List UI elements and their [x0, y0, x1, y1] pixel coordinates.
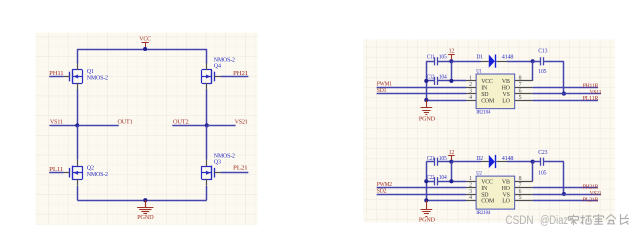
- pin 3 SD: [466, 189, 489, 199]
- svg-text:VB: VB: [502, 79, 510, 85]
- svg-text:PL11R: PL11R: [583, 95, 599, 102]
- junction C2/ground: [424, 179, 428, 183]
- pin 2 IN: [466, 82, 488, 92]
- svg-text:VS11: VS11: [50, 118, 63, 125]
- wire VS to VS21: [533, 194, 601, 196]
- svg-text:8: 8: [519, 176, 522, 182]
- wire Q2 source to bottom rail: [77, 186, 79, 200]
- svg-text:1: 1: [469, 76, 472, 82]
- wire node to OUT1: [77, 125, 118, 127]
- svg-text:2: 2: [469, 82, 472, 88]
- wire SD1 to SD pin: [377, 93, 466, 95]
- pin 2 IN: [466, 183, 488, 193]
- watermark CJK glyphs: [568, 214, 629, 225]
- pin 4 COM: [466, 195, 495, 205]
- wire Q3 gate to PL21: [221, 172, 249, 174]
- wire VS to VS11: [533, 93, 601, 95]
- left sheet background: [35, 33, 257, 225]
- svg-text:C12: C12: [427, 75, 435, 81]
- wire PH11 to Q1 gate: [49, 76, 63, 78]
- svg-text:Q4: Q4: [214, 63, 221, 69]
- svg-text:IN: IN: [481, 86, 488, 92]
- capacitor C11: [426, 55, 451, 66]
- transistor Q4: [202, 64, 221, 90]
- pin 5 LO: [502, 95, 532, 105]
- svg-text:104: 104: [439, 175, 447, 181]
- wire PWM2 to IN pin: [377, 187, 466, 189]
- right sheet background: [363, 39, 615, 222]
- svg-text:5: 5: [519, 95, 522, 101]
- svg-text:6: 6: [519, 88, 522, 94]
- wire LO to PL21R: [533, 200, 598, 202]
- wire VS11 to node: [49, 125, 77, 127]
- junction top rail / VCC: [143, 47, 147, 51]
- wire SD2 to SD pin: [377, 194, 466, 196]
- svg-text:8: 8: [519, 76, 522, 82]
- pin 8 VB: [502, 176, 533, 186]
- svg-text:1: 1: [469, 176, 472, 182]
- junction node VS21: [205, 123, 209, 127]
- wire HO to PH21R: [533, 187, 598, 189]
- junction node VS11: [75, 123, 79, 127]
- svg-text:CSDN: CSDN: [505, 213, 533, 227]
- wire ground rail vertical: [426, 162, 428, 201]
- transistor Q1: [64, 64, 83, 90]
- svg-text:105: 105: [439, 55, 447, 61]
- svg-text:D1: D1: [476, 55, 483, 61]
- wire ground rail vertical: [426, 61, 428, 100]
- wire diode to VB node: [507, 161, 533, 163]
- svg-text:NMOS-2: NMOS-2: [214, 57, 235, 63]
- svg-text:VCC: VCC: [481, 180, 493, 186]
- svg-text:LO: LO: [502, 199, 510, 205]
- svg-text:PGND: PGND: [419, 218, 436, 224]
- diode D2 4148: [476, 155, 513, 168]
- svg-text:COM: COM: [481, 199, 495, 205]
- svg-text:U2: U2: [476, 171, 482, 177]
- pin 4 COM: [466, 95, 495, 105]
- wire OUT2 to node: [172, 125, 207, 127]
- svg-text:PL21: PL21: [233, 164, 248, 171]
- capacitor C12: [426, 75, 466, 85]
- svg-text:4148: 4148: [502, 55, 514, 61]
- wire top rail: [77, 49, 207, 51]
- pin 7 HO: [502, 82, 533, 92]
- pin 3 SD: [466, 88, 489, 98]
- wire 12V node to diode D2: [451, 161, 481, 163]
- svg-text:COM: COM: [481, 98, 495, 104]
- svg-text:PGND: PGND: [419, 116, 436, 122]
- svg-text:12: 12: [449, 49, 455, 55]
- power port 12 (U2): [448, 150, 454, 162]
- ground PGND (left sheet): [137, 200, 154, 221]
- svg-text:LO: LO: [502, 98, 510, 104]
- svg-text:C23: C23: [538, 150, 547, 156]
- svg-text:7: 7: [519, 183, 522, 189]
- pin 5 LO: [502, 195, 532, 205]
- svg-text:@Diaz: @Diaz: [540, 213, 568, 227]
- wire Q4 gate to PH21: [221, 76, 249, 78]
- svg-text:VCC: VCC: [481, 79, 493, 85]
- wire ground to COM pin: [426, 200, 466, 202]
- diode D1 4148: [476, 55, 513, 68]
- junction VCC pin wire: [449, 179, 453, 183]
- svg-text:3: 3: [469, 189, 472, 195]
- wire ground to COM pin: [426, 100, 466, 102]
- pin 1 VCC: [466, 76, 493, 86]
- svg-text:C22: C22: [427, 175, 435, 181]
- svg-text:D2: D2: [476, 156, 483, 162]
- capacitor C13: [533, 49, 564, 75]
- pin 6 VS: [503, 88, 533, 98]
- wire Q4 source to VS21 node: [206, 90, 208, 126]
- svg-text:IR2104: IR2104: [476, 110, 490, 116]
- junction 12V node: [449, 160, 453, 164]
- junction VCC pin wire: [449, 79, 453, 83]
- svg-text:7: 7: [519, 82, 522, 88]
- svg-text:104: 104: [439, 75, 447, 81]
- svg-text:PGND: PGND: [137, 215, 154, 221]
- svg-text:VS: VS: [503, 192, 510, 198]
- op-amp driver IC U1 IR2104: [476, 74, 515, 109]
- junction VB node: [531, 59, 535, 63]
- svg-text:PL21R: PL21R: [583, 196, 599, 203]
- ground PGND (U2): [419, 200, 436, 223]
- wire right rail upper (VCC to Q4 drain): [206, 49, 208, 64]
- svg-text:4: 4: [469, 95, 472, 101]
- svg-text:SD: SD: [481, 92, 489, 98]
- svg-text:C21: C21: [427, 156, 435, 162]
- ground PGND (U1): [419, 100, 436, 122]
- svg-text:VS: VS: [503, 92, 510, 98]
- wire VB node down to pin 8: [532, 162, 534, 182]
- wire 12V node down to VCC pin: [451, 162, 453, 182]
- svg-text:105: 105: [439, 156, 447, 162]
- wire Q2 drain from VS11 node: [77, 125, 79, 159]
- wire Q3 source to bottom rail: [206, 186, 208, 200]
- junction bottom rail / PGND: [143, 198, 147, 202]
- pin 1 VCC: [466, 176, 493, 186]
- junction VS node: [562, 92, 566, 96]
- junction COM/ground: [424, 98, 428, 102]
- svg-text:NMOS-2: NMOS-2: [87, 76, 108, 82]
- svg-text:105: 105: [538, 170, 546, 176]
- junction COM/ground: [424, 198, 428, 202]
- wire 12V node down to VCC pin: [451, 61, 453, 81]
- svg-text:OUT2: OUT2: [173, 118, 189, 125]
- svg-text:3: 3: [469, 88, 472, 94]
- transistor Q3: [202, 160, 221, 186]
- svg-text:OUT1: OUT1: [118, 118, 133, 125]
- wire Q3 drain from VS21 node: [206, 125, 208, 159]
- junction VS node: [562, 192, 566, 196]
- wire left rail upper (VCC to Q1 drain): [77, 49, 79, 64]
- op-amp driver IC U2 IR2104: [476, 176, 515, 209]
- svg-text:Q1: Q1: [87, 69, 94, 75]
- svg-text:C11: C11: [427, 55, 435, 61]
- capacitor C21: [426, 156, 451, 166]
- svg-text:SD2: SD2: [377, 187, 387, 194]
- svg-text:IN: IN: [481, 186, 488, 192]
- power port VCC: [139, 37, 151, 49]
- svg-text:C13: C13: [538, 49, 547, 55]
- wire diode to VB node: [507, 61, 533, 63]
- svg-text:6: 6: [519, 189, 522, 195]
- wire node to VS21: [207, 125, 236, 127]
- wire VB node down to pin 8: [532, 61, 534, 81]
- svg-text:VCC: VCC: [139, 37, 151, 43]
- svg-text:4: 4: [469, 195, 472, 201]
- svg-text:2: 2: [469, 183, 472, 189]
- svg-text:VS21: VS21: [235, 118, 248, 125]
- svg-text:HO: HO: [502, 86, 511, 92]
- svg-text:HO: HO: [502, 186, 511, 192]
- pin 8 VB: [502, 76, 533, 86]
- junction 12V node: [449, 59, 453, 63]
- pin 7 HO: [502, 183, 533, 193]
- transistor Q2: [64, 160, 83, 186]
- wire LO to PL11R: [533, 100, 598, 102]
- svg-text:SD: SD: [481, 192, 489, 198]
- wire PL11 to Q2 gate: [49, 172, 63, 174]
- svg-text:Q2: Q2: [87, 165, 94, 171]
- svg-text:NMOS-2: NMOS-2: [87, 172, 108, 178]
- power port 12 (U1): [448, 49, 454, 62]
- svg-text:VB: VB: [502, 180, 510, 186]
- wire 12V node to diode D1: [451, 61, 481, 63]
- wire Q1 source to VS11 node: [77, 90, 79, 126]
- wire PWM1 to IN pin: [377, 87, 466, 89]
- junction C2/ground: [424, 79, 428, 83]
- wire C13 down to VS: [563, 61, 565, 93]
- svg-text:Q3: Q3: [214, 160, 221, 166]
- pin 6 VS: [503, 189, 533, 199]
- svg-text:105: 105: [538, 69, 546, 75]
- svg-text:U1: U1: [476, 68, 482, 74]
- junction VB node: [531, 160, 535, 164]
- wire bottom rail: [77, 200, 207, 202]
- svg-text:IR2104: IR2104: [476, 210, 490, 216]
- wire C23 down to VS: [563, 162, 565, 194]
- capacitor C23: [533, 150, 564, 176]
- svg-text:5: 5: [519, 195, 522, 201]
- capacitor C22: [426, 175, 466, 185]
- wire HO to PH11R: [533, 87, 598, 89]
